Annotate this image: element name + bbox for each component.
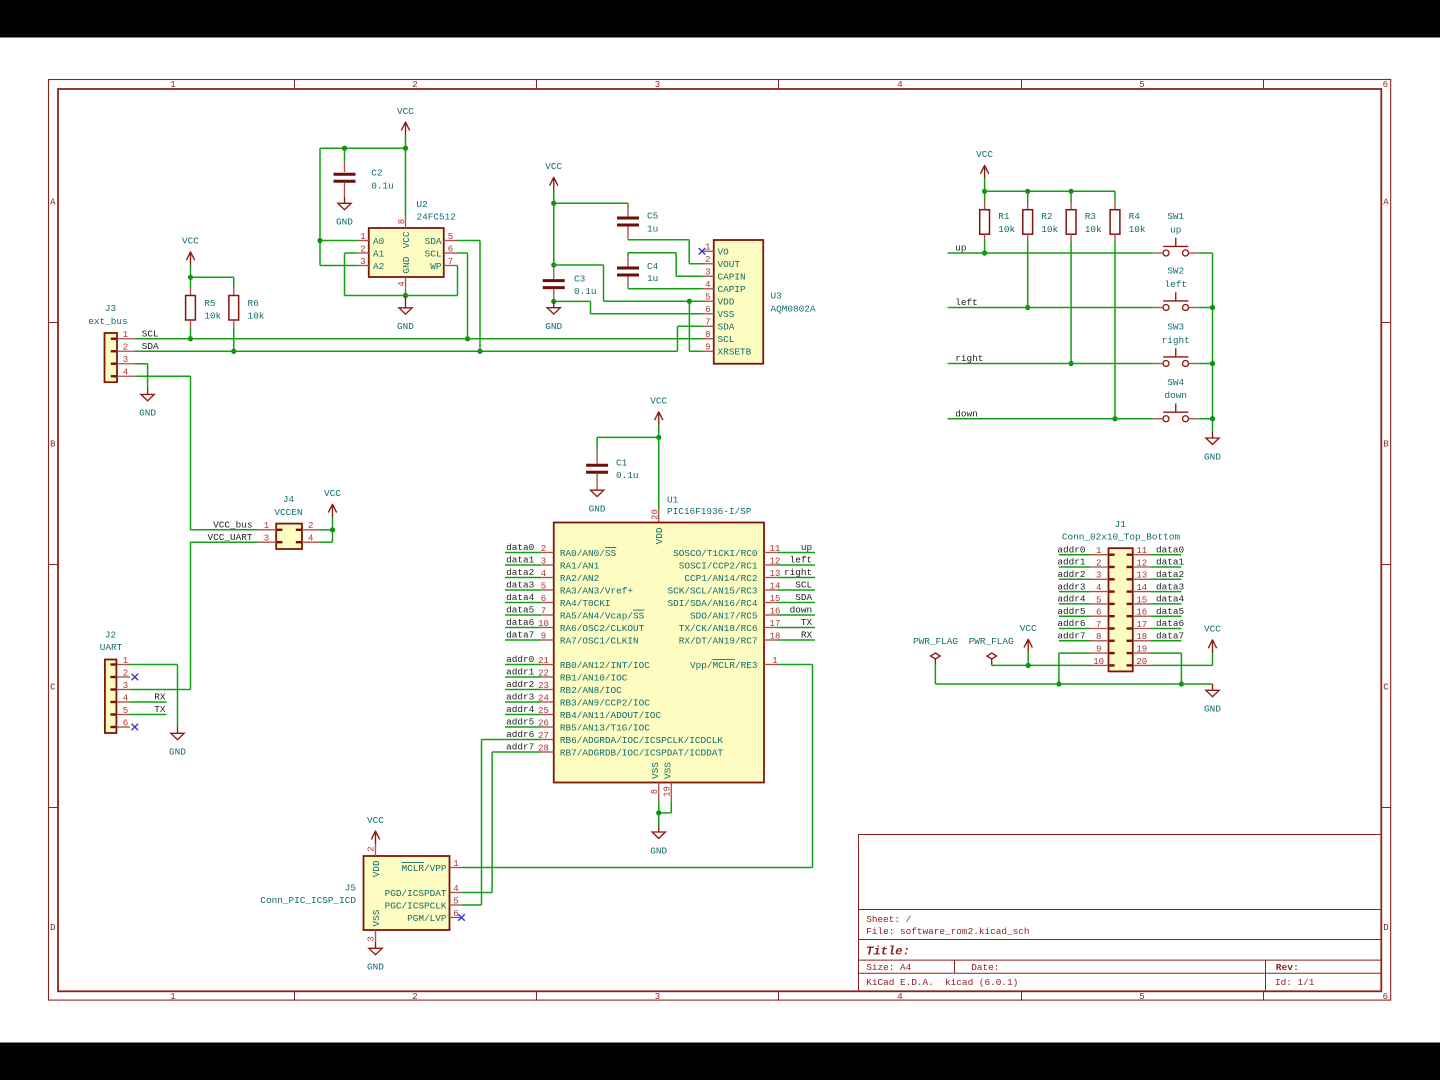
- svg-text:10: 10: [1093, 657, 1104, 667]
- svg-text:1: 1: [453, 859, 458, 869]
- svg-text:1: 1: [1096, 546, 1101, 556]
- svg-text:up: up: [955, 243, 966, 254]
- svg-text:TX: TX: [801, 617, 813, 628]
- svg-text:RB4/AN11/ADOUT/IOC: RB4/AN11/ADOUT/IOC: [560, 710, 662, 721]
- svg-text:15: 15: [770, 594, 781, 604]
- svg-text:RB0/AN12/INT/IOC: RB0/AN12/INT/IOC: [560, 660, 650, 671]
- svg-text:RX: RX: [801, 630, 813, 641]
- svg-text:17: 17: [770, 619, 781, 629]
- svg-text:B: B: [1383, 439, 1389, 449]
- svg-text:SCL: SCL: [795, 580, 812, 591]
- svg-text:addr6: addr6: [1057, 618, 1086, 629]
- svg-text:GND: GND: [1204, 451, 1221, 462]
- svg-text:6: 6: [123, 718, 128, 728]
- svg-text:addr1: addr1: [1057, 557, 1086, 568]
- svg-text:addr6: addr6: [506, 729, 535, 740]
- svg-text:right: right: [1162, 335, 1190, 346]
- svg-text:VCC: VCC: [976, 149, 993, 160]
- svg-text:1u: 1u: [647, 273, 658, 284]
- svg-text:GND: GND: [397, 321, 414, 332]
- svg-text:data3: data3: [1156, 581, 1185, 592]
- svg-text:down: down: [955, 408, 978, 419]
- svg-text:Size: A4: Size: A4: [866, 962, 911, 973]
- svg-text:Sheet: /: Sheet: /: [866, 914, 911, 925]
- svg-text:VDD: VDD: [371, 860, 382, 877]
- svg-text:SOSCI/CCP2/RC1: SOSCI/CCP2/RC1: [679, 560, 758, 571]
- svg-text:2: 2: [308, 521, 313, 531]
- svg-text:C: C: [50, 682, 56, 692]
- svg-text:Rev:: Rev:: [1276, 962, 1299, 973]
- svg-text:2: 2: [360, 244, 365, 254]
- svg-text:1: 1: [170, 80, 175, 90]
- svg-text:addr3: addr3: [506, 692, 535, 703]
- svg-text:addr4: addr4: [506, 704, 535, 715]
- svg-text:R4: R4: [1129, 211, 1141, 222]
- svg-text:3: 3: [541, 556, 546, 566]
- svg-text:down: down: [790, 605, 813, 616]
- svg-text:GND: GND: [589, 504, 606, 515]
- svg-text:RA3/AN3/Vref+: RA3/AN3/Vref+: [560, 585, 634, 596]
- svg-text:8: 8: [705, 330, 710, 340]
- svg-text:23: 23: [538, 681, 549, 691]
- svg-text:2: 2: [412, 992, 417, 1002]
- svg-text:24FC512: 24FC512: [417, 211, 456, 222]
- svg-text:VCC: VCC: [650, 396, 667, 407]
- svg-text:addr2: addr2: [506, 679, 534, 690]
- svg-text:R5: R5: [204, 298, 216, 309]
- svg-text:J5: J5: [345, 882, 357, 893]
- svg-text:VCC: VCC: [367, 815, 384, 826]
- svg-text:2: 2: [1096, 558, 1101, 568]
- svg-text:ext_bus: ext_bus: [88, 316, 127, 327]
- svg-text:data1: data1: [506, 555, 535, 566]
- svg-text:20: 20: [650, 509, 660, 520]
- svg-text:addr0: addr0: [1057, 544, 1086, 555]
- svg-text:KiCad E.D.A. kicad (6.0.1): KiCad E.D.A. kicad (6.0.1): [866, 977, 1018, 988]
- svg-text:U1: U1: [667, 494, 679, 505]
- svg-text:RA0/AN0/SS: RA0/AN0/SS: [560, 548, 617, 559]
- svg-text:CAPIN: CAPIN: [718, 272, 746, 283]
- svg-text:up: up: [1170, 224, 1181, 235]
- svg-text:6: 6: [1383, 80, 1388, 90]
- svg-text:3: 3: [1096, 571, 1101, 581]
- svg-text:U2: U2: [417, 199, 428, 210]
- svg-text:7: 7: [541, 606, 546, 616]
- svg-text:2: 2: [123, 668, 128, 678]
- svg-text:GND: GND: [1204, 704, 1221, 715]
- svg-text:SCL: SCL: [142, 328, 159, 339]
- svg-text:R2: R2: [1041, 211, 1052, 222]
- svg-text:SW4: SW4: [1167, 377, 1184, 388]
- svg-text:14: 14: [1136, 583, 1147, 593]
- svg-text:VCC: VCC: [1020, 623, 1037, 634]
- svg-text:24: 24: [538, 693, 549, 703]
- svg-text:A1: A1: [373, 248, 385, 259]
- svg-text:17: 17: [1136, 620, 1147, 630]
- svg-text:3: 3: [123, 681, 128, 691]
- svg-text:RA2/AN2: RA2/AN2: [560, 573, 599, 584]
- svg-text:6: 6: [1096, 608, 1101, 618]
- svg-text:4: 4: [308, 534, 313, 544]
- svg-text:5: 5: [1096, 595, 1101, 605]
- svg-text:10k: 10k: [1085, 224, 1102, 235]
- svg-text:J3: J3: [105, 303, 117, 314]
- svg-text:9: 9: [1096, 645, 1101, 655]
- svg-text:data3: data3: [506, 580, 535, 591]
- svg-text:VCC: VCC: [1204, 624, 1221, 635]
- svg-text:Conn_PIC_ICSP_ICD: Conn_PIC_ICSP_ICD: [260, 895, 356, 906]
- svg-text:PGD/ICSPDAT: PGD/ICSPDAT: [385, 888, 447, 899]
- svg-text:1: 1: [772, 656, 777, 666]
- svg-text:CCP1/AN14/RC2: CCP1/AN14/RC2: [684, 573, 757, 584]
- svg-text:7: 7: [448, 257, 453, 267]
- svg-text:7: 7: [1096, 620, 1101, 630]
- svg-text:File: software_rom2.kicad_sch: File: software_rom2.kicad_sch: [866, 926, 1029, 937]
- svg-text:25: 25: [538, 706, 549, 716]
- svg-text:SDA: SDA: [795, 592, 812, 603]
- svg-text:9: 9: [541, 631, 546, 641]
- svg-text:RB7/ADGRDB/IOC/ICSPDAT/ICDDAT: RB7/ADGRDB/IOC/ICSPDAT/ICDDAT: [560, 747, 724, 758]
- svg-text:12: 12: [1136, 558, 1147, 568]
- svg-text:19: 19: [1136, 645, 1147, 655]
- svg-text:GND: GND: [336, 217, 353, 228]
- svg-text:C5: C5: [647, 210, 659, 221]
- svg-text:XRSETB: XRSETB: [718, 347, 752, 358]
- svg-text:0.1u: 0.1u: [371, 180, 394, 191]
- svg-text:19: 19: [662, 786, 672, 797]
- svg-text:VSS: VSS: [662, 762, 673, 779]
- svg-text:3: 3: [264, 534, 269, 544]
- svg-text:SCK/SCL/AN15/RC3: SCK/SCL/AN15/RC3: [667, 585, 757, 596]
- svg-text:RB1/AN10/IOC: RB1/AN10/IOC: [560, 672, 628, 683]
- svg-text:5: 5: [123, 706, 128, 716]
- svg-text:data4: data4: [1156, 594, 1185, 605]
- svg-text:27: 27: [538, 731, 549, 741]
- svg-text:RA6/OSC2/CLKOUT: RA6/OSC2/CLKOUT: [560, 623, 645, 634]
- svg-text:SW1: SW1: [1167, 211, 1184, 222]
- svg-text:TX/CK/AN18/RC6: TX/CK/AN18/RC6: [679, 623, 758, 634]
- svg-text:13: 13: [1136, 571, 1147, 581]
- svg-text:RB3/AN9/CCP2/IOC: RB3/AN9/CCP2/IOC: [560, 697, 650, 708]
- svg-text:data5: data5: [1156, 606, 1185, 617]
- svg-text:6: 6: [1383, 992, 1388, 1002]
- svg-text:addr4: addr4: [1057, 594, 1086, 605]
- svg-text:VCC: VCC: [401, 231, 412, 248]
- svg-text:6: 6: [541, 594, 546, 604]
- svg-text:C3: C3: [574, 274, 586, 285]
- svg-text:data2: data2: [506, 567, 534, 578]
- svg-text:CAPIP: CAPIP: [718, 284, 747, 295]
- svg-text:SCL: SCL: [718, 334, 735, 345]
- svg-text:GND: GND: [650, 845, 667, 856]
- svg-text:left: left: [790, 555, 813, 566]
- svg-text:1: 1: [360, 232, 365, 242]
- svg-text:VCC: VCC: [397, 106, 414, 117]
- svg-text:C2: C2: [371, 167, 382, 178]
- svg-text:11: 11: [770, 544, 781, 554]
- svg-text:2: 2: [412, 80, 417, 90]
- svg-text:1: 1: [264, 521, 269, 531]
- svg-text:SDO/AN17/RC5: SDO/AN17/RC5: [690, 610, 758, 621]
- svg-text:SDA: SDA: [425, 236, 442, 247]
- svg-text:RX/DT/AN19/RC7: RX/DT/AN19/RC7: [679, 635, 758, 646]
- svg-text:3: 3: [705, 268, 710, 278]
- svg-text:1u: 1u: [647, 223, 658, 234]
- svg-text:8: 8: [1096, 632, 1101, 642]
- svg-text:addr0: addr0: [506, 654, 535, 665]
- svg-text:SDA: SDA: [142, 341, 159, 352]
- svg-text:5: 5: [541, 581, 546, 591]
- svg-text:RA5/AN4/Vcap/SS: RA5/AN4/Vcap/SS: [560, 610, 645, 621]
- svg-text:5: 5: [1139, 992, 1144, 1002]
- svg-text:data2: data2: [1156, 569, 1184, 580]
- svg-text:16: 16: [770, 606, 781, 616]
- svg-text:2: 2: [705, 255, 710, 265]
- svg-text:VCC: VCC: [324, 488, 341, 499]
- svg-text:4: 4: [897, 992, 902, 1002]
- svg-text:AQM0802A: AQM0802A: [771, 303, 816, 314]
- svg-text:Id: 1/1: Id: 1/1: [1275, 977, 1315, 988]
- svg-text:8: 8: [397, 219, 407, 224]
- svg-text:VSS: VSS: [650, 762, 661, 779]
- svg-text:14: 14: [770, 581, 781, 591]
- svg-text:VDD: VDD: [718, 297, 735, 308]
- svg-text:10: 10: [538, 619, 549, 629]
- svg-text:3: 3: [655, 80, 660, 90]
- svg-text:4: 4: [897, 80, 902, 90]
- svg-text:SDA: SDA: [718, 322, 735, 333]
- svg-text:data6: data6: [506, 617, 535, 628]
- svg-text:addr3: addr3: [1057, 581, 1086, 592]
- svg-text:Date:: Date:: [971, 962, 999, 973]
- svg-text:VDD: VDD: [654, 527, 665, 544]
- svg-text:addr7: addr7: [1057, 631, 1085, 642]
- svg-text:VCC: VCC: [182, 236, 199, 247]
- svg-text:Title:: Title:: [866, 944, 910, 958]
- svg-text:13: 13: [770, 569, 781, 579]
- svg-text:GND: GND: [545, 321, 562, 332]
- svg-text:right: right: [784, 567, 812, 578]
- svg-text:B: B: [50, 439, 56, 449]
- svg-text:6: 6: [448, 244, 453, 254]
- svg-text:1: 1: [123, 330, 128, 340]
- svg-text:PWR_FLAG: PWR_FLAG: [969, 636, 1014, 647]
- svg-text:VOUT: VOUT: [718, 259, 741, 270]
- svg-text:UART: UART: [100, 642, 123, 653]
- svg-text:2: 2: [123, 343, 128, 353]
- svg-text:PGM/LVP: PGM/LVP: [407, 913, 447, 924]
- svg-text:SOSCO/T1CKI/RC0: SOSCO/T1CKI/RC0: [673, 548, 758, 559]
- svg-text:3: 3: [367, 936, 377, 941]
- svg-text:data0: data0: [1156, 544, 1185, 555]
- svg-text:8: 8: [650, 789, 660, 794]
- svg-text:VSS: VSS: [371, 909, 382, 926]
- svg-text:J1: J1: [1115, 519, 1127, 530]
- svg-text:12: 12: [770, 556, 781, 566]
- svg-text:U3: U3: [771, 290, 783, 301]
- svg-text:20: 20: [1136, 657, 1147, 667]
- svg-text:21: 21: [538, 656, 549, 666]
- svg-text:1: 1: [123, 656, 128, 666]
- svg-text:9: 9: [705, 343, 710, 353]
- svg-text:VCCEN: VCCEN: [274, 507, 302, 518]
- svg-text:SW2: SW2: [1167, 266, 1184, 277]
- svg-text:2: 2: [541, 544, 546, 554]
- svg-text:7: 7: [705, 318, 710, 328]
- svg-text:TX: TX: [154, 704, 166, 715]
- svg-text:R1: R1: [998, 211, 1010, 222]
- svg-text:A0: A0: [373, 236, 385, 247]
- svg-text:RB5/AN13/T1G/IOC: RB5/AN13/T1G/IOC: [560, 722, 650, 733]
- svg-text:Vpp/MCLR/RE3: Vpp/MCLR/RE3: [690, 660, 758, 671]
- svg-text:10k: 10k: [1041, 224, 1058, 235]
- svg-text:D: D: [50, 923, 55, 933]
- svg-text:PGC/ICSPCLK: PGC/ICSPCLK: [385, 900, 447, 911]
- svg-text:4: 4: [397, 281, 407, 286]
- svg-text:26: 26: [538, 718, 549, 728]
- svg-text:16: 16: [1136, 608, 1147, 618]
- svg-text:left: left: [1164, 279, 1187, 290]
- svg-text:J4: J4: [283, 494, 295, 505]
- svg-text:RX: RX: [154, 692, 166, 703]
- svg-text:4: 4: [123, 368, 128, 378]
- svg-text:2: 2: [367, 846, 377, 851]
- svg-text:data5: data5: [506, 605, 535, 616]
- svg-text:VCC_UART: VCC_UART: [207, 532, 252, 543]
- svg-text:WP: WP: [430, 261, 442, 272]
- svg-text:C: C: [1383, 682, 1389, 692]
- svg-text:4: 4: [705, 280, 710, 290]
- svg-text:RA1/AN1: RA1/AN1: [560, 560, 600, 571]
- svg-text:5: 5: [448, 232, 453, 242]
- svg-text:GND: GND: [169, 747, 186, 758]
- svg-text:A2: A2: [373, 261, 384, 272]
- svg-text:VSS: VSS: [718, 309, 735, 320]
- svg-text:addr2: addr2: [1057, 569, 1085, 580]
- svg-text:A: A: [50, 197, 56, 207]
- svg-text:6: 6: [705, 305, 710, 315]
- svg-text:10k: 10k: [248, 311, 265, 322]
- svg-text:SDI/SDA/AN16/RC4: SDI/SDA/AN16/RC4: [667, 598, 757, 609]
- svg-text:0.1u: 0.1u: [616, 470, 639, 481]
- svg-text:D: D: [1383, 923, 1388, 933]
- svg-text:R6: R6: [248, 298, 260, 309]
- svg-text:C4: C4: [647, 261, 659, 272]
- svg-text:data4: data4: [506, 592, 535, 603]
- svg-text:addr5: addr5: [506, 717, 535, 728]
- svg-text:28: 28: [538, 743, 549, 753]
- svg-text:data1: data1: [1156, 557, 1185, 568]
- svg-text:PWR_FLAG: PWR_FLAG: [913, 636, 958, 647]
- svg-text:10k: 10k: [1129, 224, 1146, 235]
- svg-text:VCC_bus: VCC_bus: [213, 520, 252, 531]
- svg-text:left: left: [955, 297, 978, 308]
- svg-text:3: 3: [123, 355, 128, 365]
- svg-text:15: 15: [1136, 595, 1147, 605]
- svg-text:C1: C1: [616, 458, 628, 469]
- svg-text:RB2/AN8/IOC: RB2/AN8/IOC: [560, 685, 622, 696]
- svg-text:3: 3: [360, 257, 365, 267]
- svg-text:data6: data6: [1156, 618, 1185, 629]
- svg-text:4: 4: [453, 884, 458, 894]
- svg-text:SCL: SCL: [425, 248, 442, 259]
- svg-text:18: 18: [770, 631, 781, 641]
- svg-text:J2: J2: [105, 630, 116, 641]
- svg-text:18: 18: [1136, 632, 1147, 642]
- svg-text:1: 1: [705, 243, 710, 253]
- svg-text:A: A: [1383, 197, 1389, 207]
- svg-text:22: 22: [538, 668, 549, 678]
- svg-text:1: 1: [170, 992, 175, 1002]
- svg-text:data7: data7: [506, 630, 534, 641]
- svg-text:VCC: VCC: [545, 161, 562, 172]
- svg-text:4: 4: [123, 693, 128, 703]
- svg-text:RA4/T0CKI: RA4/T0CKI: [560, 598, 611, 609]
- svg-text:6: 6: [453, 909, 458, 919]
- svg-text:MCLR/VPP: MCLR/VPP: [401, 863, 446, 874]
- svg-text:GND: GND: [139, 408, 156, 419]
- svg-text:VO: VO: [718, 247, 730, 258]
- svg-text:data0: data0: [506, 542, 535, 553]
- svg-text:10k: 10k: [204, 311, 221, 322]
- svg-text:10k: 10k: [998, 224, 1015, 235]
- svg-text:3: 3: [655, 992, 660, 1002]
- svg-text:up: up: [801, 542, 812, 553]
- svg-text:Conn_02x10_Top_Bottom: Conn_02x10_Top_Bottom: [1062, 532, 1181, 543]
- svg-text:11: 11: [1136, 546, 1147, 556]
- svg-text:5: 5: [453, 896, 458, 906]
- svg-text:SW3: SW3: [1167, 322, 1184, 333]
- svg-text:5: 5: [1139, 80, 1144, 90]
- svg-text:right: right: [955, 353, 983, 364]
- svg-text:data7: data7: [1156, 631, 1184, 642]
- svg-text:down: down: [1164, 390, 1187, 401]
- svg-text:RB6/ADGRDA/IOC/ICSPCLK/ICDCLK: RB6/ADGRDA/IOC/ICSPCLK/ICDCLK: [560, 735, 724, 746]
- svg-text:0.1u: 0.1u: [574, 286, 597, 297]
- svg-text:PIC16F1936-I/SP: PIC16F1936-I/SP: [667, 506, 752, 517]
- svg-text:RA7/OSC1/CLKIN: RA7/OSC1/CLKIN: [560, 635, 639, 646]
- svg-text:R3: R3: [1085, 211, 1097, 222]
- svg-text:4: 4: [1096, 583, 1101, 593]
- svg-text:5: 5: [705, 293, 710, 303]
- svg-text:addr1: addr1: [506, 667, 535, 678]
- svg-text:GND: GND: [401, 256, 412, 273]
- svg-text:4: 4: [541, 569, 546, 579]
- svg-text:addr7: addr7: [506, 742, 534, 753]
- svg-text:GND: GND: [367, 962, 384, 973]
- svg-text:addr5: addr5: [1057, 606, 1086, 617]
